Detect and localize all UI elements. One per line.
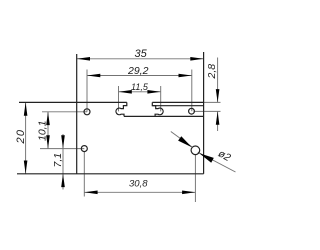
svg-text:35: 35 [135, 48, 148, 60]
svg-text:20: 20 [15, 129, 27, 145]
svg-text:11,5: 11,5 [131, 82, 149, 92]
svg-text:29,2: 29,2 [127, 65, 149, 77]
svg-text:30,8: 30,8 [129, 179, 148, 190]
svg-text:2,8: 2,8 [206, 64, 218, 80]
svg-text:10,1: 10,1 [37, 121, 49, 141]
svg-text:ø2: ø2 [216, 148, 233, 165]
svg-text:7,1: 7,1 [52, 153, 64, 168]
